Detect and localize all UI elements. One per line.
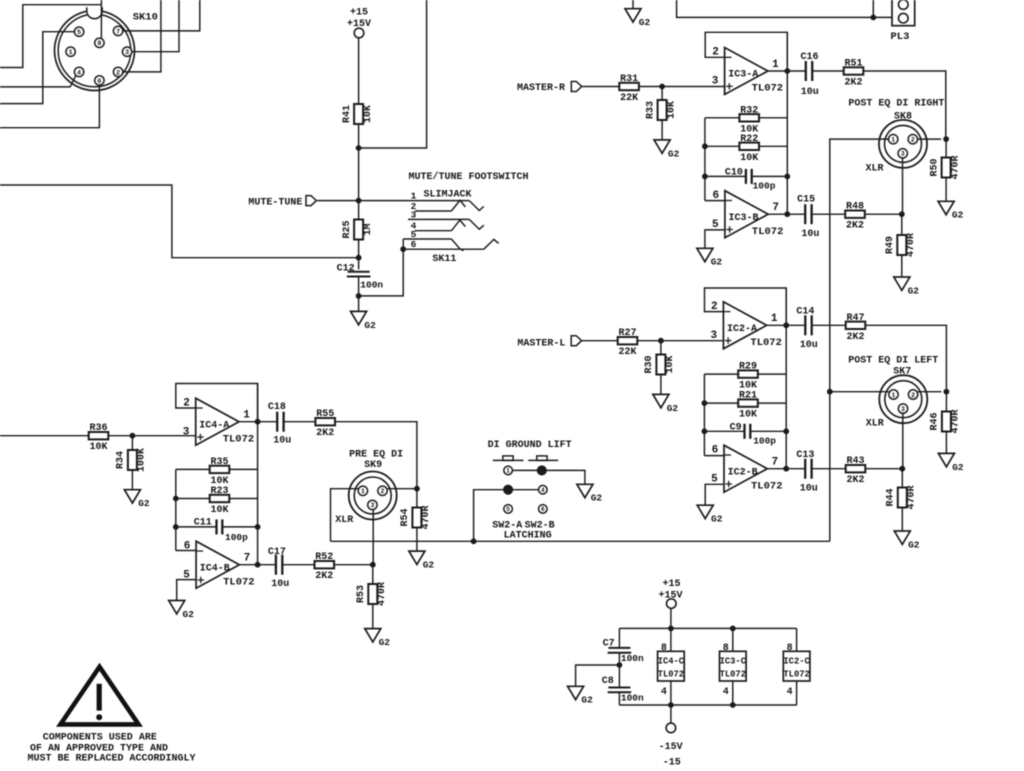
svg-text:G2: G2: [423, 560, 435, 571]
svg-text:5: 5: [77, 29, 81, 37]
svg-text:C9: C9: [730, 423, 742, 434]
svg-text:2K2: 2K2: [316, 428, 334, 439]
svg-text:1: 1: [243, 410, 250, 422]
svg-text:6: 6: [97, 78, 101, 86]
svg-text:SK9: SK9: [364, 460, 382, 471]
svg-text:TL072: TL072: [783, 670, 809, 680]
svg-text:MUST BE REPLACED ACCORDINGLY: MUST BE REPLACED ACCORDINGLY: [28, 754, 196, 765]
svg-text:100p: 100p: [225, 532, 248, 543]
svg-text:G2: G2: [364, 320, 376, 331]
svg-text:SLIMJACK: SLIMJACK: [424, 190, 472, 201]
svg-text:7: 7: [244, 553, 251, 565]
svg-text:G2: G2: [667, 403, 679, 414]
svg-text:4: 4: [77, 69, 81, 77]
svg-text:4: 4: [787, 687, 793, 698]
svg-text:G2: G2: [952, 210, 964, 221]
svg-text:100K: 100K: [137, 448, 148, 472]
svg-text:+15: +15: [662, 579, 680, 590]
svg-text:C15: C15: [797, 194, 815, 205]
svg-text:1M: 1M: [363, 223, 374, 235]
svg-text:10u: 10u: [801, 229, 819, 240]
svg-text:10K: 10K: [739, 410, 757, 421]
svg-text:10u: 10u: [800, 340, 818, 351]
svg-text:3: 3: [183, 426, 190, 438]
svg-text:8: 8: [787, 643, 793, 654]
svg-text:3: 3: [901, 151, 905, 158]
svg-text:2K2: 2K2: [846, 332, 864, 343]
svg-text:R54: R54: [400, 508, 411, 526]
svg-text:R53: R53: [356, 585, 367, 603]
svg-text:100n: 100n: [621, 653, 644, 664]
svg-text:G2: G2: [668, 148, 680, 159]
svg-text:IC2-C: IC2-C: [783, 657, 810, 667]
svg-text:R49: R49: [885, 236, 896, 254]
svg-text:100n: 100n: [360, 279, 383, 290]
svg-text:R29: R29: [739, 362, 757, 373]
svg-text:7: 7: [772, 457, 779, 469]
svg-text:R21: R21: [739, 391, 757, 402]
svg-text:PL3: PL3: [891, 31, 910, 43]
svg-text:R22: R22: [740, 134, 758, 145]
svg-text:R51: R51: [844, 59, 862, 70]
svg-text:10K: 10K: [210, 505, 228, 516]
svg-text:IC2-A: IC2-A: [727, 324, 757, 335]
svg-text:R23: R23: [210, 486, 228, 497]
svg-text:MUTE/TUNE FOOTSWITCH: MUTE/TUNE FOOTSWITCH: [409, 171, 529, 183]
svg-text:SK11: SK11: [432, 254, 456, 265]
svg-text:6: 6: [712, 444, 719, 456]
svg-text:4: 4: [661, 687, 667, 698]
svg-text:470R: 470R: [906, 233, 917, 257]
svg-text:1: 1: [892, 392, 896, 399]
svg-text:5: 5: [712, 219, 719, 231]
svg-text:TL072: TL072: [223, 433, 255, 445]
svg-text:POST EQ DI RIGHT: POST EQ DI RIGHT: [848, 99, 944, 110]
svg-text:R52: R52: [315, 552, 333, 563]
svg-text:IC3-A: IC3-A: [728, 70, 758, 81]
svg-text:MASTER-L: MASTER-L: [517, 338, 565, 349]
svg-text:10K: 10K: [89, 442, 107, 453]
svg-text:COMPONENTS USED ARE: COMPONENTS USED ARE: [43, 733, 157, 744]
svg-text:2: 2: [911, 137, 915, 144]
svg-text:R46: R46: [930, 412, 941, 430]
svg-text:2: 2: [381, 488, 385, 495]
svg-text:IC3-B: IC3-B: [729, 213, 759, 224]
svg-text:3: 3: [901, 406, 905, 413]
svg-text:R47: R47: [846, 313, 864, 324]
svg-text:1: 1: [771, 313, 778, 325]
svg-text:470R: 470R: [377, 582, 388, 606]
svg-text:IC3-C: IC3-C: [720, 657, 747, 667]
svg-text:IC4-C: IC4-C: [658, 657, 685, 667]
svg-text:TL072: TL072: [750, 337, 782, 349]
svg-text:-15V: -15V: [659, 742, 683, 753]
svg-text:-15: -15: [663, 757, 681, 768]
svg-text:C18: C18: [268, 402, 286, 413]
svg-text:1: 1: [69, 49, 73, 57]
svg-text:TL072: TL072: [658, 670, 684, 680]
svg-text:XLR: XLR: [866, 419, 884, 430]
svg-text:100p: 100p: [753, 435, 776, 446]
svg-text:10K: 10K: [740, 153, 758, 164]
svg-text:1: 1: [361, 488, 365, 495]
svg-text:470R: 470R: [907, 485, 918, 509]
svg-text:SK10: SK10: [133, 12, 158, 24]
svg-text:XLR: XLR: [335, 515, 353, 526]
svg-text:TL072: TL072: [752, 83, 784, 95]
svg-text:POST EQ DI LEFT: POST EQ DI LEFT: [848, 355, 938, 366]
svg-text:22K: 22K: [620, 93, 638, 104]
svg-text:3: 3: [125, 49, 129, 57]
svg-text:C8: C8: [602, 676, 614, 687]
svg-text:10K: 10K: [363, 105, 374, 123]
svg-text:R35: R35: [210, 457, 228, 468]
svg-text:10u: 10u: [800, 484, 818, 495]
svg-text:3: 3: [710, 330, 717, 342]
svg-text:4: 4: [541, 487, 545, 494]
svg-text:2K2: 2K2: [315, 571, 333, 582]
svg-text:R34: R34: [116, 451, 127, 469]
svg-text:G2: G2: [138, 498, 150, 509]
svg-text:1: 1: [891, 137, 895, 144]
svg-text:470R: 470R: [951, 409, 962, 433]
svg-text:6: 6: [541, 506, 545, 513]
svg-text:R43: R43: [846, 456, 864, 467]
svg-text:R36: R36: [89, 423, 107, 434]
svg-text:R44: R44: [886, 488, 897, 506]
svg-text:10u: 10u: [801, 87, 819, 98]
svg-text:8: 8: [661, 643, 667, 654]
svg-text:DI GROUND LIFT: DI GROUND LIFT: [488, 440, 572, 451]
svg-text:470R: 470R: [950, 155, 961, 179]
svg-text:3: 3: [712, 76, 719, 88]
svg-text:R41: R41: [342, 105, 353, 123]
svg-text:1: 1: [506, 468, 510, 475]
svg-text:R48: R48: [846, 202, 864, 213]
svg-text:8: 8: [97, 40, 101, 48]
svg-text:R31: R31: [620, 74, 638, 85]
svg-text:LATCHING: LATCHING: [504, 530, 552, 541]
svg-text:2K2: 2K2: [844, 78, 862, 89]
svg-text:7: 7: [772, 202, 779, 214]
svg-text:7: 7: [116, 28, 120, 36]
svg-text:C16: C16: [801, 52, 819, 63]
svg-text:MUTE-TUNE: MUTE-TUNE: [248, 198, 302, 209]
svg-text:G2: G2: [952, 462, 964, 473]
svg-text:2: 2: [911, 392, 915, 399]
svg-text:+15: +15: [350, 8, 368, 19]
svg-text:R25: R25: [342, 220, 353, 238]
svg-text:1: 1: [772, 59, 779, 71]
svg-text:TL072: TL072: [223, 576, 255, 588]
svg-text:10u: 10u: [273, 435, 291, 446]
svg-text:R33: R33: [645, 101, 656, 119]
svg-text:R50: R50: [929, 158, 940, 176]
svg-text:PRE EQ DI: PRE EQ DI: [349, 450, 403, 461]
svg-text:TL072: TL072: [720, 670, 746, 680]
svg-text:470R: 470R: [421, 505, 432, 529]
svg-text:G2: G2: [183, 609, 195, 620]
svg-text:G2: G2: [908, 539, 920, 550]
svg-text:5: 5: [506, 506, 510, 513]
svg-text:10u: 10u: [271, 579, 289, 590]
svg-text:XLR: XLR: [866, 163, 884, 174]
svg-text:IC2-B: IC2-B: [728, 467, 758, 478]
svg-text:G2: G2: [639, 17, 651, 28]
svg-text:R55: R55: [316, 409, 334, 420]
svg-text:10K: 10K: [665, 355, 676, 373]
svg-text:R32: R32: [740, 105, 758, 116]
svg-text:22K: 22K: [618, 347, 636, 358]
svg-text:G2: G2: [711, 257, 723, 268]
svg-text:TL072: TL072: [752, 226, 784, 238]
svg-text:TL072: TL072: [751, 480, 783, 492]
svg-text:2K2: 2K2: [846, 475, 864, 486]
svg-text:R27: R27: [618, 328, 636, 339]
svg-text:C10: C10: [725, 167, 743, 178]
svg-text:IC4-A: IC4-A: [199, 420, 229, 431]
svg-text:100n: 100n: [621, 692, 644, 703]
svg-text:G2: G2: [711, 514, 723, 525]
svg-text:2: 2: [116, 69, 120, 77]
svg-text:C11: C11: [194, 517, 212, 528]
svg-text:2K2: 2K2: [846, 221, 864, 232]
svg-text:G2: G2: [908, 285, 920, 296]
svg-text:G2: G2: [591, 493, 603, 504]
svg-text:G2: G2: [379, 637, 391, 648]
svg-text:R30: R30: [644, 355, 655, 373]
svg-text:G2: G2: [581, 695, 593, 706]
svg-text:8: 8: [723, 643, 729, 654]
svg-text:10K: 10K: [666, 101, 677, 119]
svg-text:IC4-B: IC4-B: [200, 563, 230, 574]
svg-text:3: 3: [370, 502, 374, 509]
svg-text:4: 4: [723, 687, 729, 698]
svg-text:MASTER-R: MASTER-R: [517, 83, 565, 94]
svg-text:100p: 100p: [753, 180, 776, 191]
